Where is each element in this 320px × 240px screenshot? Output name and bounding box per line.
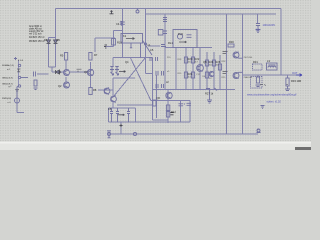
cap pair top right x150-158	[150, 57, 158, 61]
conn pin P1	[18, 64, 20, 66]
svg-text:RL1: RL1	[168, 41, 173, 45]
wire V x113 nfb	[112, 78, 114, 96]
wire V x113.5	[113, 31, 115, 47]
svg-text:C9: C9	[256, 28, 260, 32]
svg-text:OUT: OUT	[292, 71, 298, 75]
status bar strip	[0, 142, 311, 151]
arrow in box	[126, 38, 135, 40]
wire V x214	[213, 52, 215, 90]
wire vas feed horizontal y38	[95, 37, 115, 39]
wire diagonal X down	[130, 58, 151, 101]
glyph x206-218 y88	[206, 88, 217, 91]
resistor R27	[218, 64, 221, 70]
svg-text:www.circuitsarchive.org/schem/: www.circuitsarchive.org/schem/amp60w.gif	[247, 92, 297, 96]
svg-text:GND(2,6,9): GND(2,6,9)	[2, 78, 13, 80]
gnd under C9	[256, 30, 261, 33]
wire input node run	[52, 71, 64, 73]
cap pair right x155-165 y87	[156, 84, 164, 88]
fb cap CF2	[187, 103, 192, 105]
wire H y73.5	[146, 73, 153, 75]
svg-text:SIGNAL(1,5): SIGNAL(1,5)	[2, 64, 14, 67]
svg-text:C5: C5	[150, 48, 154, 52]
wire V x122.4 from bus A	[121, 9, 123, 58]
svg-text:Q4: Q4	[125, 60, 129, 64]
wire V x180.7	[180, 100, 182, 122]
wire vertical left rail x55.5	[55, 9, 57, 38]
link box L2	[173, 30, 197, 48]
pin glyph top	[14, 57, 17, 60]
wire right zener branch	[55, 38, 57, 68]
zobel network box R31	[253, 64, 263, 70]
link box L1	[121, 34, 143, 44]
fb cap CF1	[179, 104, 186, 106]
stub below box	[130, 43, 132, 48]
transistor Q2	[64, 82, 70, 88]
transistor Q1	[64, 70, 70, 76]
resistor R22	[191, 57, 194, 63]
svg-text:Q1: Q1	[58, 70, 62, 74]
transistor Q9	[209, 72, 214, 77]
net arrow y71.5	[119, 71, 126, 73]
svg-text:R30: R30	[229, 40, 234, 44]
svg-text:R21: R21	[188, 72, 193, 76]
tick mid y72	[77, 69, 82, 72]
glyph between pins	[17, 69, 21, 72]
conn glyph x165 y17	[163, 18, 167, 22]
wire H y89.5 mid rail	[153, 89, 236, 91]
input gnd	[34, 88, 38, 90]
input res R1	[34, 80, 37, 86]
resistor R21	[184, 72, 187, 78]
transistor QF x113 y99	[111, 96, 117, 102]
wire V x176	[175, 48, 177, 90]
wire stub to diode D1	[51, 67, 53, 72]
bus end glyph x258	[257, 129, 260, 132]
svg-text:Q2: Q2	[58, 84, 62, 88]
svg-text:R24: R24	[209, 60, 214, 64]
diagonal link to C5	[143, 41, 153, 56]
wire jog	[17, 86, 19, 88]
arrow glyph mid box	[118, 114, 125, 116]
title text block	[29, 25, 46, 43]
base marks Q10	[223, 52, 228, 54]
tick at y46	[161, 45, 166, 47]
conn glyph x165 y31	[163, 31, 167, 34]
svg-text:R8: R8	[93, 88, 97, 92]
junction circle x135	[133, 132, 136, 135]
wire H y47.5 right part	[197, 47, 212, 49]
svg-text:R33 10R: R33 10R	[291, 79, 301, 83]
wire output H y75	[243, 74, 298, 76]
transistor Q3	[87, 69, 93, 75]
gnd symbol left of bottom bus	[108, 133, 111, 136]
small rect x158-163	[158, 30, 163, 36]
svg-text:D4: D4	[44, 38, 48, 42]
arrow in box L2	[177, 34, 182, 39]
inductor box L3	[267, 63, 278, 70]
wire V x145.5 from bus A	[145, 9, 147, 74]
emitter res R30	[228, 44, 234, 47]
svg-text:100n/100V: 100n/100V	[263, 23, 276, 27]
jack J1	[15, 98, 20, 103]
wire V x121 to bottom bus	[120, 122, 122, 134]
transistor Q8	[197, 65, 204, 72]
wire H y105	[117, 104, 153, 106]
zobel R to gnd x258	[257, 75, 259, 77]
gnd stub x209.5	[207, 90, 212, 104]
wire stub bus B cap	[257, 14, 259, 23]
zobel cap C9	[256, 24, 260, 29]
wire diff pair mid	[70, 71, 87, 73]
power circle PWR2	[136, 10, 139, 13]
wire V x242.5 long	[242, 14, 244, 134]
schematic sheet background	[0, 0, 311, 142]
res stack x168	[166, 105, 169, 111]
bottom-right corner patch	[295, 147, 311, 150]
svg-text:R12: R12	[171, 110, 176, 114]
svg-text:R31: R31	[253, 60, 258, 64]
transistor QG x169 y95.5	[166, 92, 172, 98]
wire H y120	[153, 119, 169, 121]
gnd glyph x262 y105	[261, 106, 265, 109]
bus A top rail	[56, 8, 282, 10]
bus B second rail	[146, 13, 277, 15]
wire H y90 vas in	[98, 89, 113, 91]
svg-text:rev 1.02 sch: rev 1.02 sch	[29, 32, 42, 35]
wire V x193	[192, 48, 194, 90]
wire input jack vertical	[16, 87, 18, 113]
wire input jack stub	[17, 112, 24, 114]
wire input from cap	[37, 73, 49, 75]
wire V x156.5	[156, 75, 158, 118]
wire V x186	[185, 48, 187, 90]
input cap C1	[34, 72, 36, 77]
wire V x226.5 long	[226, 14, 228, 134]
svg-text:R5: R5	[60, 54, 64, 58]
svg-text:C4: C4	[116, 22, 120, 26]
stub V x140.5	[140, 43, 142, 58]
wire V x165 from bus B	[164, 14, 166, 47]
wire V x113 mirror	[112, 58, 114, 67]
cap C4 on x122.4	[120, 22, 125, 24]
glyph x121 y23	[121, 22, 124, 27]
output transistor Q10	[233, 52, 239, 58]
wire H y46.5 stub	[106, 46, 114, 48]
text labels layer	[2, 22, 301, 114]
wire left zener branch	[48, 38, 50, 68]
resistor R8	[89, 88, 92, 95]
wire diagonal X up	[114, 58, 146, 97]
svg-text:R22: R22	[195, 57, 200, 61]
wire V x220	[219, 55, 221, 90]
power flag PWR1	[110, 10, 114, 14]
vas transistor Q5	[104, 88, 110, 94]
fb caps row C6 C7 C8	[110, 108, 113, 122]
equal glyph y113	[170, 113, 173, 115]
resistor R23	[191, 72, 194, 78]
wire bottom bus y134	[108, 133, 258, 135]
resistor R26	[212, 60, 215, 66]
svg-text:R10: R10	[117, 41, 122, 45]
wire V x168 upper	[167, 90, 169, 104]
dashed box below output	[251, 77, 263, 89]
component glyph layer	[14, 9, 302, 138]
svg-text:2SC5200: 2SC5200	[244, 57, 254, 59]
svg-text:schem. v1.02: schem. v1.02	[267, 100, 282, 103]
left connector labels	[2, 60, 24, 104]
resistor R10 x113.5	[112, 39, 116, 46]
wire bottom box bus y122.2	[109, 121, 191, 123]
wire V x152.5	[152, 58, 154, 121]
conn pin P2	[18, 76, 20, 78]
svg-text:Q3: Q3	[84, 70, 88, 74]
wire ltp rail x66	[65, 60, 67, 70]
wire V x168 lower	[167, 103, 169, 123]
wire V x190	[189, 100, 191, 122]
zener D2	[47, 40, 51, 44]
polarity glyph y125	[120, 124, 123, 127]
svg-text:C6: C6	[108, 107, 112, 111]
wire H y46 link	[148, 45, 160, 47]
res x152-158 y100	[153, 100, 156, 106]
svg-text:R20: R20	[188, 57, 193, 61]
cap pair x155-164 y72	[156, 71, 164, 76]
svg-text:K 1-8: K 1-8	[18, 60, 24, 62]
mirror pair QM	[110, 67, 114, 76]
wire vas rail x90	[90, 62, 92, 88]
wire vas rail x95 upper	[94, 38, 96, 52]
svg-text:2SA1943: 2SA1943	[244, 76, 253, 79]
resistor R24	[205, 60, 208, 66]
diode D1	[56, 70, 60, 74]
svg-text:Q8: Q8	[203, 60, 207, 64]
gnd under P3	[15, 90, 19, 93]
output transistor Q11	[233, 73, 239, 79]
svg-text:FU1: FU1	[178, 32, 183, 36]
wire connector link	[18, 60, 20, 87]
load resistor R33	[286, 78, 289, 86]
wire V x281 supply right	[280, 9, 282, 76]
resistor R20	[184, 57, 187, 63]
wire H y57.5	[113, 57, 153, 59]
svg-text:R26: R26	[216, 60, 221, 64]
wire ltp rail lower	[65, 77, 67, 82]
speaker load V x289.5	[287, 75, 289, 78]
wire V x200	[199, 48, 201, 90]
conn pin P3	[18, 85, 20, 87]
wire tie bottom of zener pair	[49, 66, 56, 68]
wire V x165 mid	[164, 48, 166, 90]
output arrow	[296, 74, 302, 77]
blue annotation labels	[247, 23, 298, 103]
zener D3	[54, 40, 58, 44]
tick end left y46.5	[104, 45, 107, 48]
resistor R5	[65, 53, 68, 61]
resistor R7	[89, 53, 92, 61]
junction at box right	[145, 43, 147, 45]
wire H y30.5	[114, 30, 123, 32]
svg-text:R7: R7	[94, 53, 98, 57]
wire V x207	[206, 52, 208, 90]
wire H y78	[113, 77, 135, 79]
svg-text:R27 1k: R27 1k	[205, 92, 214, 96]
ticks y85	[260, 84, 288, 86]
wire H y47.5 driver rail	[165, 47, 173, 49]
wire bottom box top y108	[109, 107, 136, 109]
svg-text:K1: K1	[123, 34, 127, 38]
wire tie top of zener pair	[49, 37, 56, 39]
svg-text:Q6: Q6	[157, 96, 161, 100]
wire box verticals	[108, 108, 110, 122]
resistor R25	[205, 72, 208, 78]
svg-text:D5: D5	[57, 38, 61, 42]
svg-text:PWR(4,8): PWR(4,8)	[2, 98, 11, 100]
wire H y100.3 fb	[151, 99, 190, 101]
